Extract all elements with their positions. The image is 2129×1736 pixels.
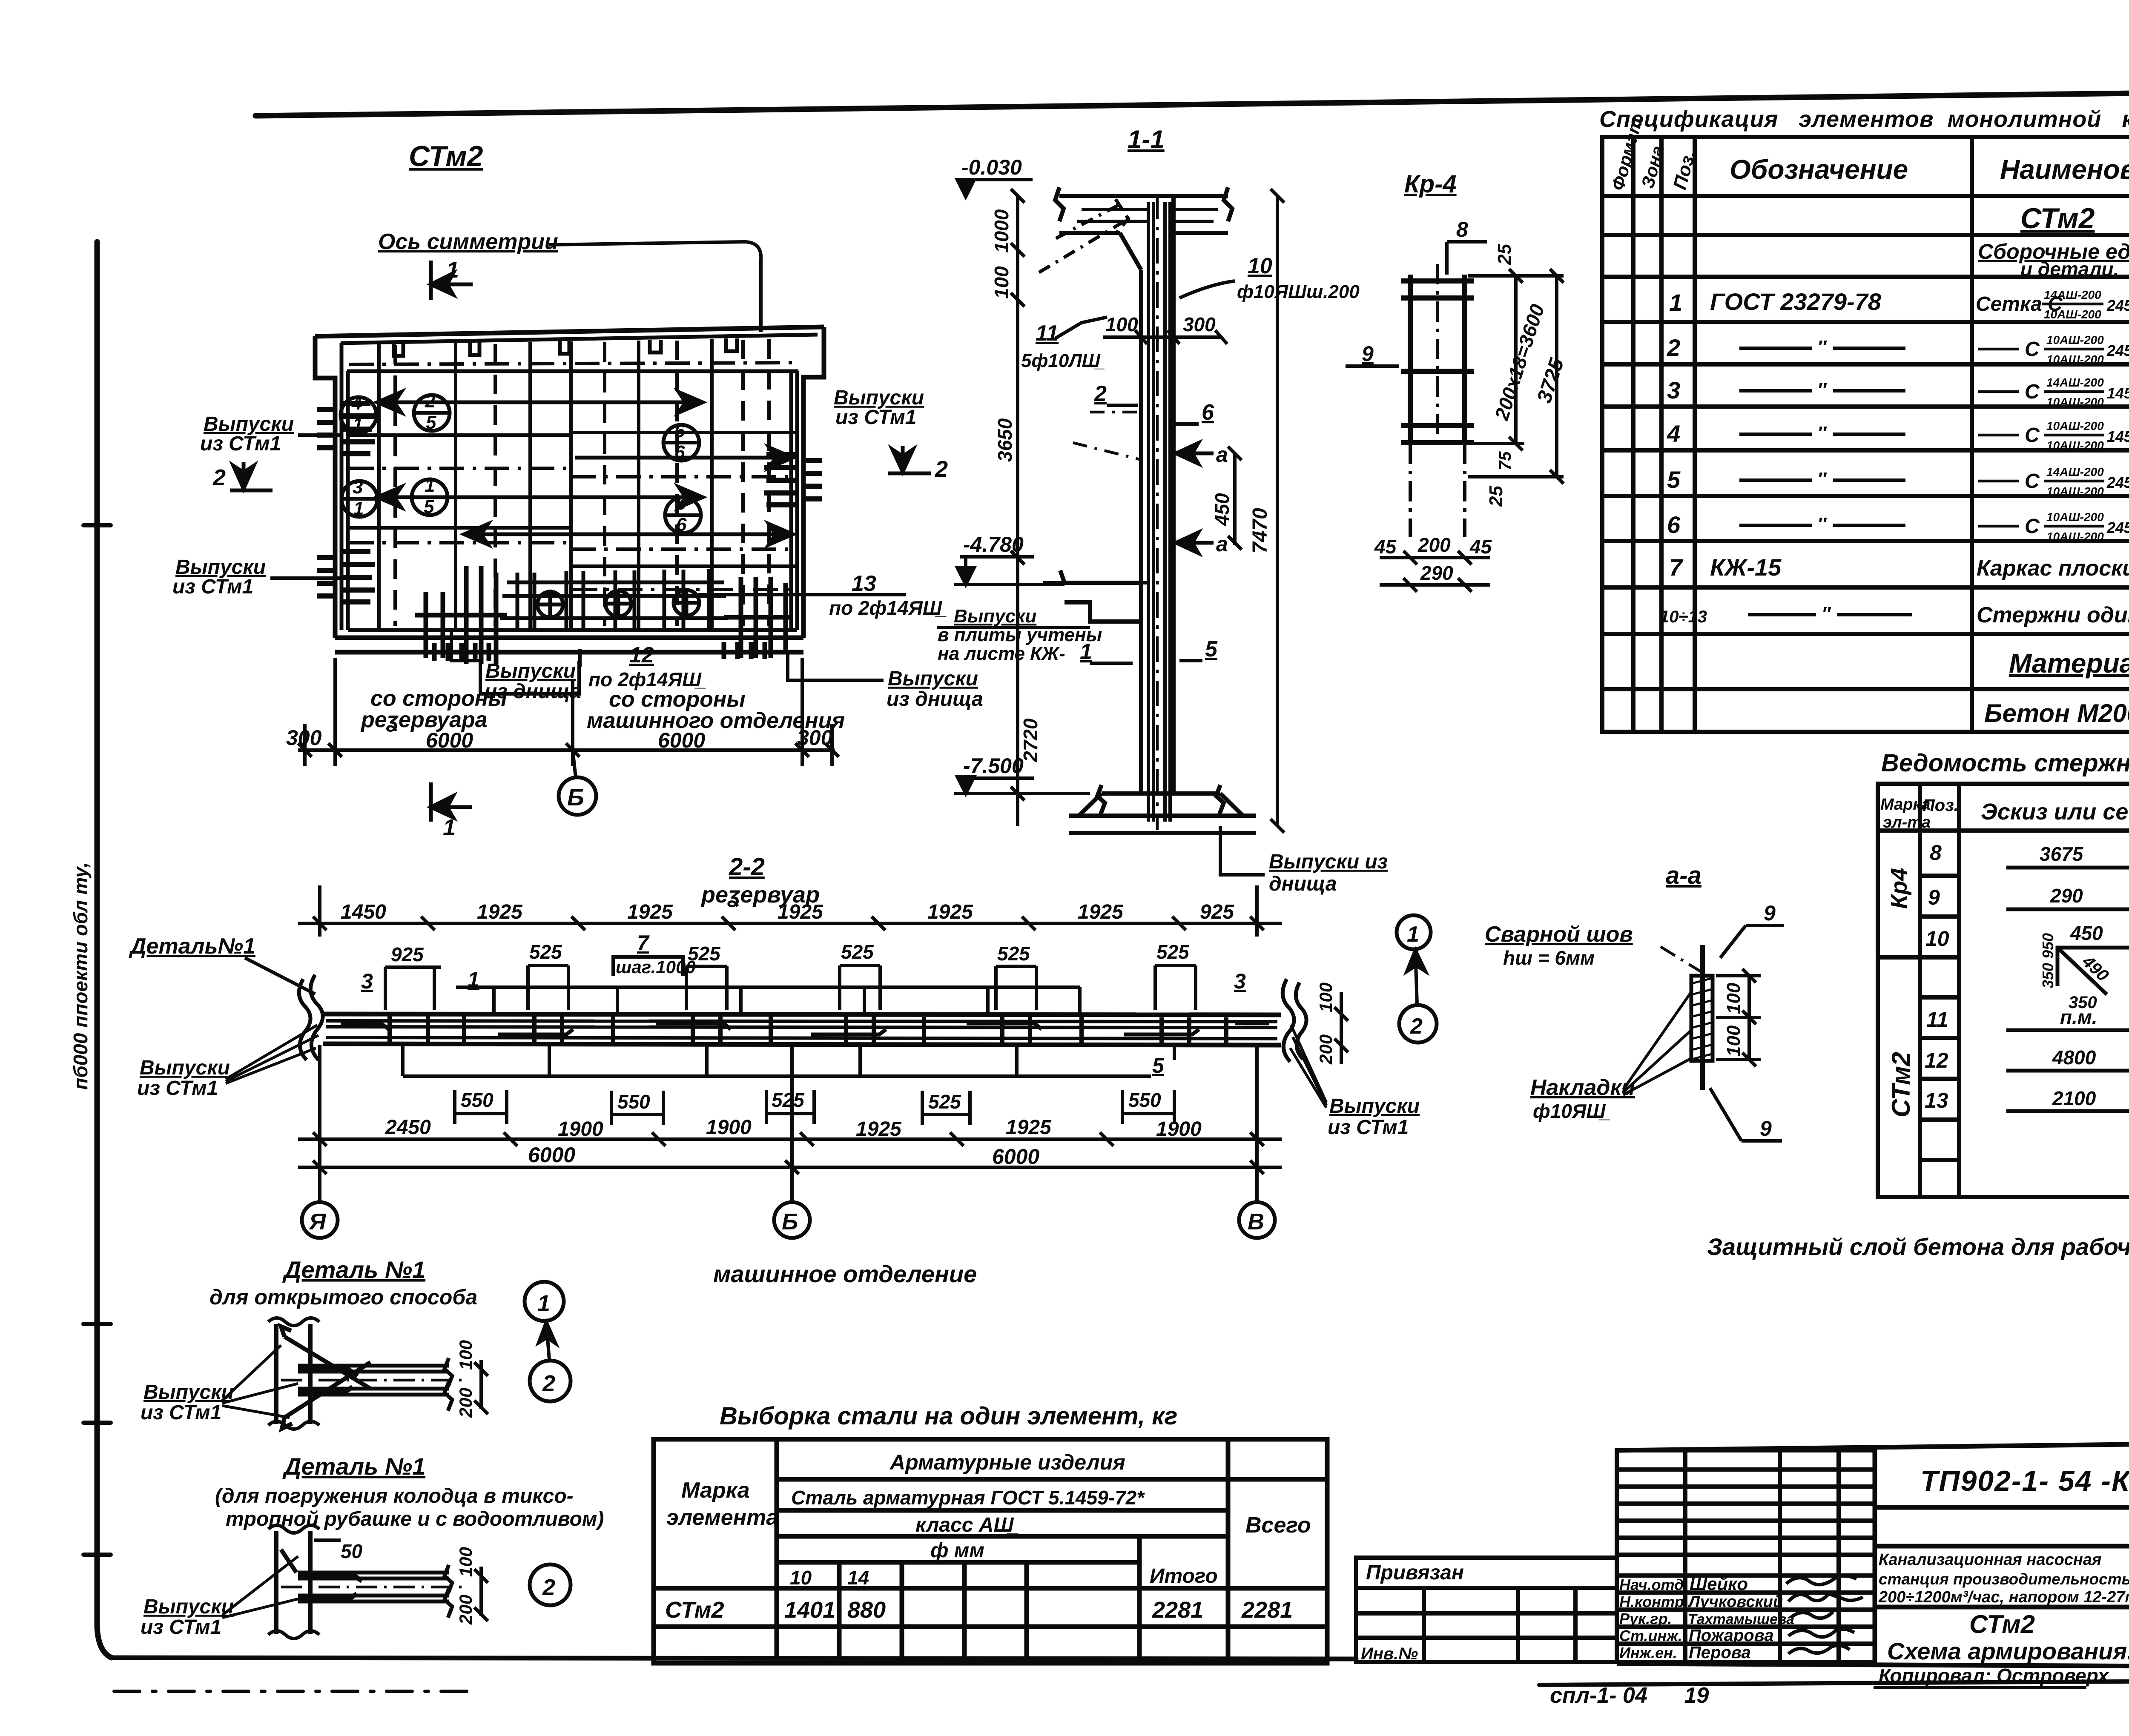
svg-text:100: 100 xyxy=(990,266,1013,299)
Выпуски из СТм1 (detail 1) xyxy=(141,1381,234,1424)
svg-text:10АШ-200: 10АШ-200 xyxy=(2046,439,2104,452)
long arrow row 2 (pos 1/5) xyxy=(377,487,703,507)
svg-text:ф10ЯШш.200: ф10ЯШш.200 xyxy=(1237,281,1360,302)
svg-text:550: 550 xyxy=(617,1091,650,1113)
title block signature grid xyxy=(1617,1450,1875,1662)
svg-text:925: 925 xyxy=(391,943,424,965)
svg-text:В: В xyxy=(1248,1209,1264,1235)
svg-text:4: 4 xyxy=(1667,420,1680,447)
svg-text:1900: 1900 xyxy=(706,1116,752,1139)
leader 13 по 2ф14АIII xyxy=(698,593,906,596)
svg-text:2450×3450: 2450×3450 xyxy=(2106,342,2129,359)
svg-text:1925: 1925 xyxy=(927,901,973,923)
svg-text:Инв.№: Инв.№ xyxy=(1361,1644,1418,1663)
plan interior horizontals left half xyxy=(348,435,571,528)
leader 10 ф10АШ ш.200 xyxy=(1237,254,1360,302)
svg-text:на листе КЖ-: на листе КЖ- xyxy=(938,643,1065,664)
row 13 xyxy=(1925,1087,2129,1119)
svg-text:1900: 1900 xyxy=(1156,1118,1202,1140)
svg-text:14АШ-200: 14АШ-200 xyxy=(2046,465,2104,478)
svg-text:6: 6 xyxy=(1667,511,1681,538)
ditto marks rows 2-7 in Обозначение column xyxy=(1739,348,1912,615)
svg-text:из СТм1: из СТм1 xyxy=(141,1401,221,1424)
detail 1 wall stub xyxy=(268,1318,319,1429)
project name xyxy=(1878,1551,2129,1606)
svg-text:1925: 1925 xyxy=(1078,901,1124,923)
svg-text:hш = 6мм: hш = 6мм xyxy=(1503,947,1595,969)
svg-text:Выпуски из: Выпуски из xyxy=(1269,851,1388,873)
svg-text:14АШ-200: 14АШ-200 xyxy=(2044,288,2101,301)
svg-text:12: 12 xyxy=(629,643,654,667)
svg-text:Деталь №1: Деталь №1 xyxy=(282,1453,425,1480)
svg-text:ф10ЯШ̲: ф10ЯШ̲ xyxy=(1533,1100,1610,1122)
svg-text:2: 2 xyxy=(425,391,436,412)
plan interior grid verticals dashed xyxy=(395,339,769,626)
caption со стороны машинного отделения xyxy=(587,687,845,733)
svg-text:11: 11 xyxy=(1036,321,1059,346)
plan interior horizontals right half xyxy=(571,433,797,566)
svg-text:13: 13 xyxy=(1925,1089,1948,1112)
svg-text:2: 2 xyxy=(542,1575,555,1600)
svg-text:Выпуски: Выпуски xyxy=(143,1381,234,1404)
svg-text:Накладки: Накладки xyxy=(1530,1075,1635,1100)
specification header texts xyxy=(1607,115,2129,193)
Накладки label xyxy=(1530,1075,1635,1122)
svg-text:8: 8 xyxy=(1930,841,1942,865)
svg-text:Выпуски: Выпуски xyxy=(888,667,978,690)
svg-text:Шейко: Шейко xyxy=(1690,1574,1748,1594)
svg-text:9: 9 xyxy=(1764,901,1776,925)
detail 1 circles 1 and 2 xyxy=(525,1282,564,1321)
plan inner wall lines xyxy=(341,335,818,630)
label Выпуски из днища (boxed, bottom centre) xyxy=(451,630,579,694)
spec row: Бетон М200 xyxy=(1984,695,2129,729)
top slab section xyxy=(1055,187,1232,270)
position circle 1/5 xyxy=(412,475,448,517)
arrow row right half (pos 6/6) xyxy=(575,447,793,468)
detail 2 circle 2 xyxy=(530,1564,571,1605)
svg-text:Обозначение: Обозначение xyxy=(1730,154,1908,185)
label Выпуски из СТм1 (right top) xyxy=(834,387,924,429)
dim 450 between a-a xyxy=(1228,447,1242,550)
svg-text:925: 925 xyxy=(1200,901,1234,923)
svg-text:6: 6 xyxy=(676,514,687,535)
carcass bottom dims 45 200 45 / 290 xyxy=(1380,551,1490,592)
wall axis dash-dot xyxy=(1156,194,1159,830)
title block right part frame xyxy=(1617,1442,2129,1667)
sheet top border xyxy=(255,91,2129,116)
svg-text:Деталь№1: Деталь№1 xyxy=(129,934,255,959)
svg-text:Арматурные изделия: Арматурные изделия xyxy=(889,1450,1125,1474)
svg-text:а: а xyxy=(1216,532,1228,556)
svg-text:Ст.инж.: Ст.инж. xyxy=(1619,1627,1682,1644)
svg-text:9: 9 xyxy=(1760,1117,1772,1140)
Привязан block xyxy=(1356,1558,1617,1662)
svg-text:для открытого способа: для открытого способа xyxy=(209,1285,477,1309)
svg-text:2: 2 xyxy=(1667,334,1680,361)
svg-text:Выпуски: Выпуски xyxy=(485,660,576,682)
row 12 xyxy=(1925,1046,2129,1078)
section mark 2 (right) xyxy=(888,446,931,473)
svg-text:11: 11 xyxy=(1926,1008,1948,1031)
position circle 4/1 xyxy=(341,393,376,435)
Выпуски в плиты учтены label xyxy=(938,606,1102,664)
svg-text:2281: 2281 xyxy=(1152,1597,1203,1623)
svg-text:3: 3 xyxy=(1234,969,1246,993)
second dim row 925 / 525 x5 / 7 шаг.1000 xyxy=(391,941,1190,965)
svg-text:45: 45 xyxy=(1374,536,1397,558)
svg-text:50: 50 xyxy=(341,1540,363,1562)
svg-text:100: 100 xyxy=(1105,313,1138,335)
svg-text:класс АШ̲: класс АШ̲ xyxy=(915,1514,1019,1536)
svg-text:Деталь №1: Деталь №1 xyxy=(282,1256,425,1283)
svg-text:Сталь арматурная ГОСТ 5.1459: Сталь арматурная ГОСТ 5.1459-72* xyxy=(791,1487,1145,1509)
svg-text:100: 100 xyxy=(1723,983,1744,1014)
svg-text:5: 5 xyxy=(1205,637,1218,662)
svg-text:″: ″ xyxy=(1817,379,1827,400)
svg-text:2450: 2450 xyxy=(385,1116,431,1139)
section mark 1 (top) xyxy=(431,261,473,300)
svg-text:525: 525 xyxy=(1156,941,1190,963)
anchor circles in floor mesh xyxy=(536,588,701,619)
arrow row right half (pos 9/6) xyxy=(464,524,793,544)
section a-a marks xyxy=(1176,443,1214,553)
svg-text:14АШ-200: 14АШ-200 xyxy=(2046,376,2104,389)
svg-text:1925: 1925 xyxy=(856,1118,902,1140)
svg-text:7470: 7470 xyxy=(1249,508,1271,553)
svg-text:6000: 6000 xyxy=(992,1145,1039,1169)
bar schedule headers xyxy=(1880,792,2129,832)
svg-text:25: 25 xyxy=(1494,244,1515,265)
svg-text:-7.500: -7.500 xyxy=(963,754,1024,778)
svg-text:2100: 2100 xyxy=(2052,1087,2096,1109)
svg-text:″: ″ xyxy=(1817,423,1827,444)
svg-text:Привязан: Привязан xyxy=(1366,1561,1464,1584)
svg-text:из СТм1: из СТм1 xyxy=(1328,1116,1409,1139)
position circle 3/1 xyxy=(341,477,377,519)
svg-text:1: 1 xyxy=(1407,922,1419,947)
label Выпуски из СТм1 (left lower) xyxy=(172,556,266,598)
mid slab dashed bar marks xyxy=(1073,412,1141,460)
svg-text:а-а: а-а xyxy=(1666,862,1701,889)
svg-text:Наименование: Наименование xyxy=(2000,154,2129,185)
svg-text:5: 5 xyxy=(1667,466,1681,493)
svg-text:2-2: 2-2 xyxy=(729,853,765,881)
svg-text:525: 525 xyxy=(772,1089,805,1111)
spec row: СТм2 group heading xyxy=(1978,202,2129,280)
svg-text:Всего: Всего xyxy=(1245,1513,1311,1538)
rebar dowel cluster left wall lower xyxy=(317,552,375,602)
svg-text:п.м.: п.м. xyxy=(2060,1006,2097,1028)
spec row 2 xyxy=(1667,333,2129,369)
svg-text:1925: 1925 xyxy=(1006,1116,1052,1139)
svg-text:С: С xyxy=(2025,515,2040,538)
svg-text:4800: 4800 xyxy=(2052,1046,2096,1069)
section mark 1 (bottom) xyxy=(431,782,472,822)
svg-text:3: 3 xyxy=(1667,377,1680,404)
labels 2 and 6 xyxy=(1094,381,1214,425)
right thickness dims 100/200 xyxy=(1334,992,1348,1064)
svg-text:2450×4450: 2450×4450 xyxy=(2106,297,2129,314)
svg-text:10АШ-200: 10АШ-200 xyxy=(2046,530,2104,543)
spec row 1 xyxy=(1669,288,2129,323)
svg-text:6: 6 xyxy=(674,442,685,463)
beam body xyxy=(323,1014,1281,1045)
steel table data row xyxy=(665,1597,1293,1623)
svg-text:Выпуски: Выпуски xyxy=(954,606,1036,627)
svg-text:1: 1 xyxy=(1080,639,1092,664)
position circle 2/5 xyxy=(414,391,450,433)
svg-text:3650: 3650 xyxy=(994,418,1016,462)
svg-text:машинное отделение: машинное отделение xyxy=(713,1260,977,1287)
svg-text:525: 525 xyxy=(997,942,1030,965)
Выпуски из СТм1 (2-2 right) xyxy=(1328,1095,1420,1139)
svg-text:из СТм1: из СТм1 xyxy=(172,576,253,598)
svg-text:Инж.ен.: Инж.ен. xyxy=(1619,1644,1677,1662)
svg-text:КЖ-15: КЖ-15 xyxy=(1710,554,1782,581)
Выпуски из днища label (1-1) xyxy=(1220,826,1265,875)
svg-text:350 950: 350 950 xyxy=(2039,933,2057,988)
row 11 xyxy=(1926,1006,2129,1038)
svg-text:Ведомость стержней на один: Ведомость стержней на один элемент xyxy=(1881,749,2129,777)
plan outer contour xyxy=(315,327,824,652)
sheet bottom border xyxy=(112,1658,1356,1659)
svg-text:200: 200 xyxy=(1417,534,1451,556)
axis leader line xyxy=(549,242,761,332)
svg-text:2: 2 xyxy=(542,1371,555,1396)
svg-text:Сварной шов: Сварной шов xyxy=(1485,922,1633,947)
svg-text:200÷1200м³/час, напором 12-27м: 200÷1200м³/час, напором 12-27м. xyxy=(1878,1588,2129,1606)
svg-text:ГОСТ 23279-78: ГОСТ 23279-78 xyxy=(1710,288,1882,315)
svg-text:45: 45 xyxy=(1469,536,1492,558)
row 9 xyxy=(1928,885,2129,918)
svg-text:С: С xyxy=(2025,381,2040,403)
rebar dowel cluster right wall xyxy=(764,455,822,505)
svg-text:СТм2: СТм2 xyxy=(2020,202,2095,235)
svg-text:200: 200 xyxy=(456,1388,476,1418)
svg-text:из СТм1: из СТм1 xyxy=(835,406,916,429)
beam end breaks xyxy=(299,975,1306,1062)
svg-text:Стержни одиночные: Стержни одиночные xyxy=(1977,603,2129,627)
svg-text:Материалы: Материалы xyxy=(2009,648,2129,679)
rebar hooks into top slab xyxy=(1039,199,1218,272)
svg-text:шаг.1000: шаг.1000 xyxy=(616,957,696,977)
svg-text:2: 2 xyxy=(1094,381,1107,406)
svg-text:1925: 1925 xyxy=(627,901,673,923)
top dimension row 1450/1925x5/925 xyxy=(298,885,1282,937)
svg-text:10АШ-200: 10АШ-200 xyxy=(2046,510,2104,524)
svg-text:Я: Я xyxy=(308,1209,327,1235)
svg-text:6000: 6000 xyxy=(528,1143,575,1167)
svg-text:9: 9 xyxy=(676,493,687,514)
svg-text:С: С xyxy=(2025,338,2040,361)
svg-text:1450×3450: 1450×3450 xyxy=(2107,428,2129,445)
svg-text:ф мм: ф мм xyxy=(930,1539,984,1562)
svg-text:10АШ-200: 10АШ-200 xyxy=(2046,419,2104,433)
svg-text:1: 1 xyxy=(446,257,459,283)
svg-text:Каркас плоский Кр4: Каркас плоский Кр4 xyxy=(1977,556,2129,581)
detail 2 bars xyxy=(281,1550,468,1618)
svg-text:а: а xyxy=(1216,443,1228,467)
Выпуски из СТм1 (detail 2) xyxy=(141,1596,234,1639)
svg-text:Выборка стали на один элем: Выборка стали на один элемент, кг xyxy=(720,1402,1178,1430)
svg-text:1925: 1925 xyxy=(477,901,523,923)
dim row 6000/6000 xyxy=(298,1045,1282,1202)
svg-text:″: ″ xyxy=(1822,603,1831,624)
svg-text:10: 10 xyxy=(790,1567,812,1589)
svg-text:6: 6 xyxy=(1202,400,1214,425)
title block signature names xyxy=(1619,1574,1794,1662)
svg-text:2: 2 xyxy=(212,465,226,490)
svg-text:6000: 6000 xyxy=(426,728,473,752)
fold tick marks on left border xyxy=(83,523,111,527)
svg-text:Поз.: Поз. xyxy=(1922,796,1959,815)
svg-text:(для погружения колодца в т: (для погружения колодца в тиксо- xyxy=(215,1485,574,1507)
svg-text:Эскиз или сечение: Эскиз или сечение xyxy=(1981,799,2129,825)
bar hooks (short diagonals) along beam xyxy=(341,1023,1269,1034)
svg-text:1401: 1401 xyxy=(784,1597,835,1623)
svg-text:5ф10ЛШ̲: 5ф10ЛШ̲ xyxy=(1021,350,1105,371)
svg-text:из СТм1: из СТм1 xyxy=(137,1077,218,1100)
svg-text:из СТм1: из СТм1 xyxy=(141,1616,221,1639)
svg-text:450: 450 xyxy=(2070,922,2103,944)
svg-text:525: 525 xyxy=(928,1091,961,1113)
svg-text:550: 550 xyxy=(461,1089,494,1111)
svg-text:25: 25 xyxy=(1486,486,1506,507)
detail 2 dim 50 xyxy=(314,1538,341,1542)
formwork notches along top xyxy=(394,338,737,356)
svg-text:Кр-4: Кр-4 xyxy=(1404,170,1457,198)
svg-text:днища: днища xyxy=(1269,873,1337,895)
svg-text:-0.030: -0.030 xyxy=(961,155,1022,179)
spec row 5 xyxy=(1667,465,2129,501)
svg-text:1450×4450: 1450×4450 xyxy=(2107,384,2129,402)
svg-text:1-1: 1-1 xyxy=(1128,125,1165,154)
detail 1 anchor cross xyxy=(281,1326,370,1429)
svg-text:2450×3650: 2450×3650 xyxy=(2106,474,2129,491)
svg-text:Лучковский: Лучковский xyxy=(1687,1593,1783,1611)
dowel bars bottom left group xyxy=(415,566,507,664)
svg-text:Канализационная насосная: Канализационная насосная xyxy=(1879,1551,2101,1569)
svg-text:Н.контр.: Н.контр. xyxy=(1619,1593,1688,1610)
svg-text:300: 300 xyxy=(797,726,833,750)
floor mesh machine room xyxy=(500,569,728,629)
svg-text:Кр4: Кр4 xyxy=(1886,868,1912,909)
bar in a-a xyxy=(1700,945,1705,1090)
svg-text:из СТм1: из СТм1 xyxy=(200,433,281,455)
svg-text:5: 5 xyxy=(1152,1054,1165,1077)
spec row 3 xyxy=(1667,376,2129,411)
detail 1 dims 100 200 xyxy=(474,1360,488,1414)
spec row 7: Каркас xyxy=(1669,554,2129,581)
svg-text:10АШ-200: 10АШ-200 xyxy=(2046,333,2104,347)
svg-text:1: 1 xyxy=(537,1291,550,1316)
stirrup pairs inside beam xyxy=(390,1015,1226,1045)
svg-text:10АШ-200: 10АШ-200 xyxy=(2046,485,2104,498)
svg-text:1925: 1925 xyxy=(778,901,823,923)
dowel bars bottom right group xyxy=(724,577,792,658)
svg-text:1000: 1000 xyxy=(990,209,1013,253)
caption со стороны резервуара xyxy=(360,686,507,732)
labels 1 and 5 xyxy=(1080,637,1218,664)
svg-text:2: 2 xyxy=(935,456,948,482)
svg-text:10÷13: 10÷13 xyxy=(1660,607,1707,626)
svg-text:Рук.гр.: Рук.гр. xyxy=(1619,1610,1672,1627)
svg-text:7: 7 xyxy=(1669,554,1684,581)
svg-text:2720: 2720 xyxy=(1019,718,1042,762)
svg-text:Спецификация элементов моно: Спецификация элементов монолитной констр… xyxy=(1599,106,2129,132)
svg-text:10АШ-200: 10АШ-200 xyxy=(2044,308,2101,321)
svg-text:2: 2 xyxy=(1410,1014,1423,1039)
svg-text:3675: 3675 xyxy=(2040,843,2084,865)
label Выпуски из днища (right) xyxy=(788,652,884,680)
svg-text:Б: Б xyxy=(782,1209,798,1235)
row 8 xyxy=(1930,841,2129,877)
svg-text:Нач.отд: Нач.отд xyxy=(1619,1576,1684,1593)
leader 11 5ф10ЛШ xyxy=(1021,321,1105,371)
specification table grid xyxy=(1602,137,2129,732)
svg-text:2450×4250: 2450×4250 xyxy=(2106,519,2129,536)
beam inner rebar lines xyxy=(326,1021,1277,1039)
svg-text:300: 300 xyxy=(286,726,322,750)
svg-text:450: 450 xyxy=(1211,493,1233,526)
svg-text:Тахтамышева: Тахтамышева xyxy=(1688,1611,1794,1627)
long arrow row 1 (pos 2/5) xyxy=(377,392,703,413)
bottom right sheet edge line xyxy=(1539,1680,2129,1685)
steel table headers xyxy=(666,1450,1311,1589)
row 10 with bent bar sketch xyxy=(1925,922,2129,958)
svg-text:пб000 ппоекти обл ту,: пб000 ппоекти обл ту, xyxy=(69,862,92,1090)
svg-text:12: 12 xyxy=(1925,1048,1948,1072)
svg-text:″: ″ xyxy=(1817,514,1827,535)
svg-text:эл-та: эл-та xyxy=(1883,814,1931,831)
labels 3 1 3 xyxy=(361,968,1246,993)
bar schedule grid xyxy=(1878,784,2129,1197)
svg-text:элемента: элемента xyxy=(666,1505,778,1530)
svg-text:Бетон М200: Бетон М200 xyxy=(1984,699,2129,728)
svg-text:Пожарова: Пожарова xyxy=(1689,1626,1774,1645)
svg-text:525: 525 xyxy=(841,941,874,963)
svg-text:10: 10 xyxy=(1925,927,1949,951)
svg-text:9: 9 xyxy=(1362,342,1374,366)
steel table grid xyxy=(654,1439,1327,1663)
svg-text:СТм2: СТм2 xyxy=(409,140,483,172)
svg-text:290: 290 xyxy=(2050,885,2083,907)
dim row 2450/1900/1900/1925/1925/1900 xyxy=(298,1132,1282,1146)
svg-text:″: ″ xyxy=(1817,337,1827,358)
svg-text:13: 13 xyxy=(852,571,876,596)
svg-text:10: 10 xyxy=(1248,254,1272,278)
dims 100 300 under slab xyxy=(1105,313,1216,335)
svg-text:спл-1- 04 19: спл-1- 04 19 xyxy=(1550,1683,1709,1708)
svg-text:75: 75 xyxy=(1496,451,1515,470)
section circles 1 and 2 (right of 2-2) xyxy=(1397,915,1431,949)
svg-text:Защитный слой бетона для р: Защитный слой бетона для рабочгй арматур… xyxy=(1707,1233,2129,1260)
svg-text:100: 100 xyxy=(456,1340,476,1370)
svg-text:200: 200 xyxy=(1316,1034,1336,1065)
svg-text:Копировал: Островерх: Копировал: Островерх xyxy=(1879,1664,2110,1687)
svg-text:Б: Б xyxy=(567,784,584,811)
wall rebars vertical xyxy=(1148,202,1170,822)
svg-text:С: С xyxy=(2025,470,2040,493)
svg-text:Перова: Перова xyxy=(1689,1643,1751,1662)
grid bubbles А Б В xyxy=(302,1202,338,1238)
svg-text:5: 5 xyxy=(424,496,434,517)
svg-text:Итого: Итого xyxy=(1150,1565,1218,1587)
small tick bars under bottom edge xyxy=(434,642,765,661)
svg-text:1: 1 xyxy=(353,498,364,519)
Выпуски из СТм1 (2-2 left) xyxy=(137,1057,230,1100)
